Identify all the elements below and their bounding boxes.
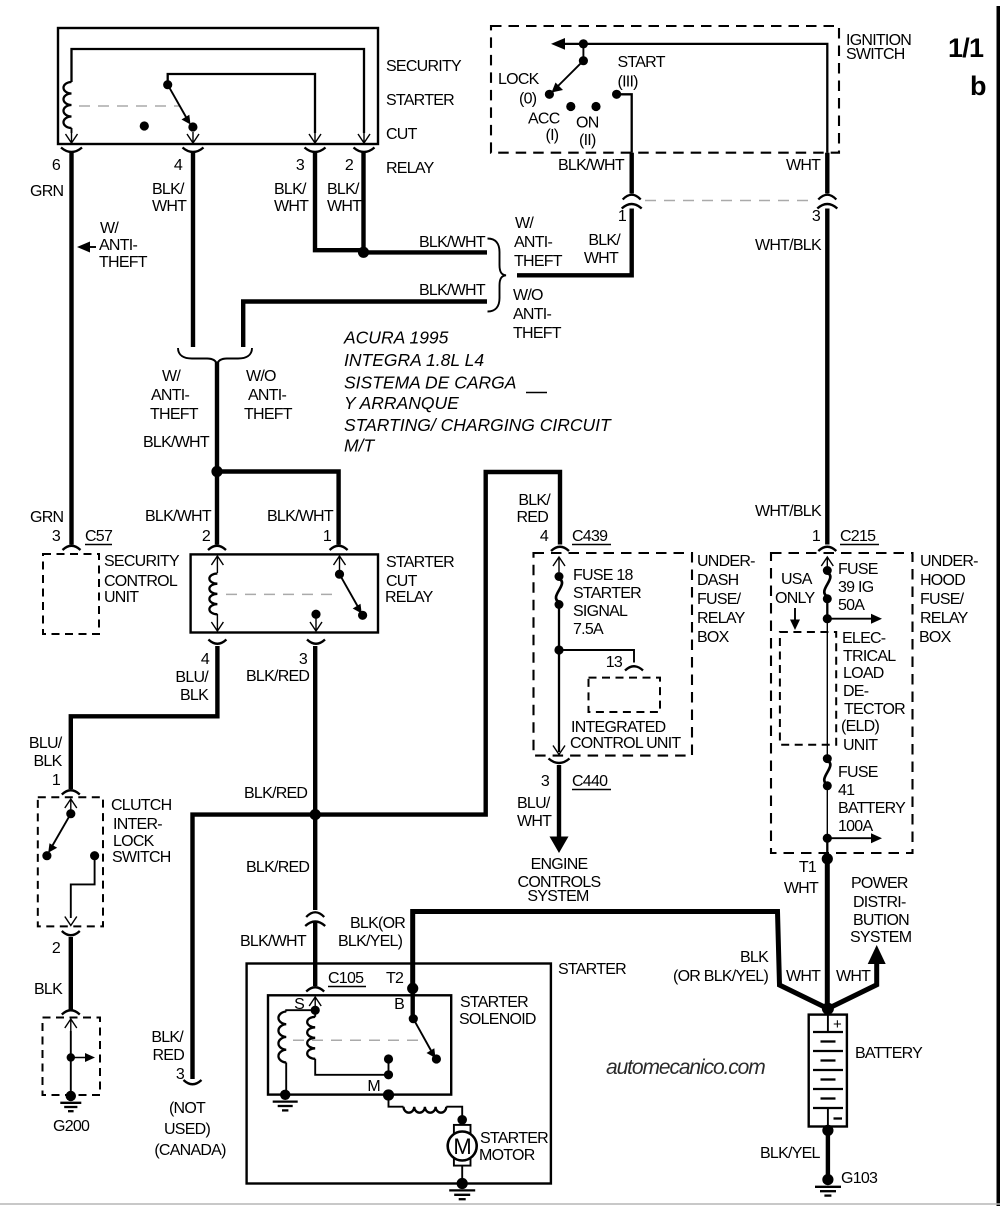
svg-text:C440: C440 (572, 773, 608, 790)
svg-text:1: 1 (52, 772, 61, 789)
svg-text:BLK/WHT: BLK/WHT (558, 157, 625, 174)
connector name C440 (572, 773, 611, 790)
ground G103 symbol (815, 1174, 841, 1196)
svg-text:DE-: DE- (843, 683, 869, 700)
wire BLK clutch to G200 (69, 937, 73, 1010)
svg-text:2: 2 (52, 940, 61, 957)
svg-text:BLK: BLK (34, 981, 63, 998)
solenoid coil 2 (307, 1010, 388, 1075)
svg-text:W/O: W/O (246, 368, 276, 385)
svg-text:LOCK: LOCK (113, 833, 155, 850)
svg-text:BLK/WHT: BLK/WHT (267, 508, 334, 525)
ignition switch rotor (552, 39, 589, 92)
svg-text:T2: T2 (386, 970, 404, 987)
relay U2 pin4 arrow down (211, 614, 223, 631)
svg-text:SECURITY: SECURITY (104, 553, 180, 570)
svg-text:(NOT: (NOT (169, 1100, 206, 1117)
svg-text:13: 13 (606, 654, 623, 671)
svg-text:BOX: BOX (697, 629, 730, 646)
arrow right fuse41 (827, 833, 882, 843)
svg-text:ONLY: ONLY (775, 590, 815, 607)
svg-text:1: 1 (812, 528, 821, 545)
page bottom rule (0, 1203, 1000, 1205)
solenoid coil1 ground (273, 1090, 298, 1111)
svg-text:ACC: ACC (528, 111, 560, 128)
connector bell ICU pin13 (625, 666, 643, 670)
svg-text:1: 1 (323, 528, 332, 545)
svg-text:RELAY: RELAY (385, 589, 434, 606)
svg-text:b: b (970, 71, 986, 101)
svg-text:BLU/: BLU/ (517, 795, 551, 812)
svg-text:THEFT: THEFT (514, 253, 563, 270)
starter assembly box (247, 964, 551, 1184)
svg-text:2: 2 (202, 528, 211, 545)
inline connector C105 upper (305, 912, 325, 926)
relay U2 coupling dashed line (226, 593, 336, 595)
wire BLK/WHT relay pin2 down (361, 152, 365, 250)
svg-text:LOCK: LOCK (498, 71, 540, 88)
relay U1 internal wire pin6-coil-pin2 (72, 49, 365, 133)
C440 arrow down (553, 746, 565, 755)
svg-text:Y ARRANQUE: Y ARRANQUE (344, 393, 459, 413)
wire BLK from T2 to battery (413, 912, 828, 1009)
connector dashed link (645, 200, 814, 202)
wire label BLK/RED not used (151, 1029, 184, 1064)
wire BLK/WHT merge down (215, 362, 219, 472)
connector bell pin 4 (183, 148, 204, 153)
wire WHT T1 to battery (825, 859, 830, 1009)
svg-text:ELEC-: ELEC- (842, 630, 886, 647)
svg-text:G200: G200 (53, 1118, 90, 1135)
svg-text:W/: W/ (162, 368, 181, 385)
svg-text:BLK: BLK (34, 753, 63, 770)
svg-text:RELAY: RELAY (920, 610, 969, 627)
relay U2 coil (209, 574, 217, 615)
junction dot battery negative (822, 1125, 833, 1136)
svg-text:HOOD: HOOD (920, 572, 965, 589)
connector bell C57 (63, 546, 81, 550)
label IGNITION SWITCH (846, 32, 911, 63)
svg-text:STARTING/ CHARGING CIRCUIT: STARTING/ CHARGING CIRCUIT (344, 415, 612, 435)
fuse F18 (555, 572, 564, 650)
svg-text:WHT: WHT (517, 813, 552, 830)
svg-text:50A: 50A (838, 597, 865, 614)
starter solenoid box (268, 995, 451, 1094)
svg-text:W/: W/ (100, 220, 119, 237)
label T1 WHT (784, 859, 819, 897)
svg-text:BLK/WHT: BLK/WHT (143, 434, 210, 451)
inline connector pair pin 1 (622, 195, 642, 209)
merge brace symbol (178, 348, 252, 365)
label STARTER CUT RELAY (385, 554, 454, 606)
svg-text:39 IG: 39 IG (838, 579, 874, 596)
node T1 (822, 853, 833, 864)
wire label BLK(OR BLK/YEL) (338, 915, 405, 950)
label ELECTRICAL LOAD DETECTOR (ELD) UNIT (841, 630, 905, 754)
relay U1 pin 6 arrow (66, 133, 78, 143)
clutch switch pin1 arrow (65, 799, 77, 810)
svg-text:DASH: DASH (697, 572, 739, 589)
svg-text:STARTER: STARTER (558, 961, 626, 978)
svg-text:TECTOR: TECTOR (844, 701, 905, 718)
svg-text:3: 3 (812, 208, 821, 225)
clutch switch right contact and wire (71, 851, 99, 918)
label ENGINE CONTROLS SYSTEM (518, 856, 601, 905)
svg-text:BLK/YEL: BLK/YEL (760, 1145, 821, 1162)
svg-text:BLK/WHT: BLK/WHT (240, 933, 307, 950)
connector name C439 (572, 528, 611, 545)
svg-text:W/O: W/O (513, 287, 543, 304)
ignition switch dashed box (491, 26, 839, 153)
svg-text:FUSE: FUSE (838, 764, 878, 781)
security control unit dashed box (43, 554, 99, 634)
wire BLK/WHT relay pin4 down to merge (191, 152, 195, 347)
svg-text:FUSE/: FUSE/ (697, 591, 742, 608)
svg-text:SYSTEM: SYSTEM (850, 929, 912, 946)
wire thin through ELD (826, 619, 828, 759)
svg-text:4: 4 (201, 651, 210, 668)
relay U2 contact and pin3 arrow (310, 610, 322, 631)
svg-text:BLK/RED: BLK/RED (244, 785, 307, 802)
wire label BLU/BLK (175, 669, 209, 704)
connector bell pin 3 (305, 148, 326, 153)
svg-text:WHT: WHT (327, 198, 362, 215)
relay U2 switch arm (335, 570, 367, 620)
connector bell C439 (551, 547, 569, 551)
svg-text:3: 3 (296, 157, 305, 174)
svg-text:ANTI-: ANTI- (248, 387, 286, 404)
svg-text:WHT: WHT (584, 250, 619, 267)
junction dot BLK/WHT split (211, 466, 222, 477)
starter motor M1 (448, 1115, 477, 1166)
svg-text:BATTERY: BATTERY (855, 1045, 923, 1062)
svg-text:ENGINE: ENGINE (531, 856, 588, 873)
svg-text:WHT: WHT (836, 968, 871, 985)
svg-text:BLK/WHT: BLK/WHT (419, 282, 486, 299)
connector bell G200 (62, 1010, 80, 1014)
ELD dashed box (780, 632, 836, 745)
label LOCK (0) (498, 71, 540, 108)
wire BLK/RED relay pin3 down (313, 646, 317, 910)
integrated control unit dashed box (589, 678, 661, 712)
svg-text:C215: C215 (840, 528, 876, 545)
svg-text:ANTI-: ANTI- (151, 387, 189, 404)
svg-text:BLK/RED: BLK/RED (246, 859, 309, 876)
svg-text:FUSE: FUSE (838, 561, 878, 578)
relay U2 pin2 arrow up (211, 556, 223, 573)
solenoid coil 1 (278, 1012, 286, 1092)
wire BLK/WHT into starter (313, 921, 317, 986)
wire BLK/RED not-used branch (193, 815, 316, 1079)
svg-text:WHT/BLK: WHT/BLK (755, 503, 822, 520)
svg-text:BLK/: BLK/ (327, 181, 360, 198)
svg-text:+: + (833, 1016, 842, 1033)
page number 1/1 b (948, 33, 986, 101)
svg-text:3: 3 (541, 773, 550, 790)
connector bell relay2 pin2 (208, 546, 226, 550)
label W/ ANTI-THEFT brace (514, 215, 563, 270)
connector bell relay U2 pin4 (208, 640, 226, 644)
wire BLK/RED to fuse 18 (315, 472, 560, 815)
wire label BLK/WHT connector (584, 232, 621, 267)
svg-text:INTEGRATED: INTEGRATED (571, 719, 666, 736)
svg-text:ON: ON (576, 115, 599, 132)
junction dot battery positive (822, 1003, 834, 1015)
svg-text:THEFT: THEFT (244, 406, 293, 423)
svg-text:BOX: BOX (919, 629, 952, 646)
under-hood fuse box dashed (771, 553, 913, 853)
solenoid M node dot (383, 1089, 394, 1100)
ignition START wire to box edge (617, 94, 632, 152)
wire BLK/WHT ignition to connector (630, 153, 634, 194)
wire BLK/YEL battery to G103 (826, 1130, 830, 1176)
svg-text:M: M (367, 1078, 380, 1095)
clutch switch arm (42, 809, 75, 860)
label FUSE 18 STARTER SIGNAL 7.5A (573, 567, 641, 638)
solenoid S node dot (311, 1006, 320, 1015)
svg-text:RED: RED (152, 1047, 184, 1064)
junction dot fuse39 output (823, 614, 832, 623)
relay U1 coil (64, 82, 72, 133)
svg-text:(OR BLK/YEL): (OR BLK/YEL) (673, 968, 768, 985)
svg-text:(CANADA): (CANADA) (154, 1142, 226, 1159)
relay U1 internal wire switch-pin3 (168, 74, 315, 133)
svg-text:CONTROL: CONTROL (104, 573, 178, 590)
svg-text:C105: C105 (328, 970, 364, 987)
svg-text:B: B (394, 996, 404, 1013)
relay U1 coupling dashed line (79, 105, 180, 107)
svg-text:BLK: BLK (180, 687, 209, 704)
svg-text:C439: C439 (572, 528, 608, 545)
junction dot T2 (407, 983, 418, 994)
svg-text:START: START (618, 54, 666, 71)
svg-text:DISTRI-: DISTRI- (853, 894, 906, 911)
svg-text:STARTER: STARTER (573, 585, 641, 602)
wire BLU/BLK relay to clutch switch (71, 646, 218, 789)
wire label BLU/BLK lower (29, 735, 63, 770)
wire label BLK/WHT pin4 (152, 181, 187, 215)
svg-text:BLK(OR: BLK(OR (350, 915, 405, 932)
relay U2 pin1 arrow up (334, 556, 346, 570)
solenoid coupling dashed line (293, 1039, 420, 1041)
svg-text:TRICAL: TRICAL (843, 648, 896, 665)
svg-text:BUTION: BUTION (853, 912, 909, 929)
relay U1 switch arm (163, 80, 197, 132)
svg-text:1/1: 1/1 (948, 33, 984, 63)
label STARTER SOLENOID (459, 994, 536, 1028)
svg-text:SISTEMA DE CARGA: SISTEMA DE CARGA (344, 373, 516, 393)
wire motor to ground (461, 1166, 463, 1180)
svg-text:BLK/RED: BLK/RED (246, 668, 309, 685)
svg-text:M/T: M/T (344, 436, 375, 456)
connector bell clutch pin1 (62, 790, 80, 794)
G200 internal dot and right arrow (67, 1053, 95, 1062)
svg-text:SWITCH: SWITCH (112, 849, 171, 866)
svg-text:SECURITY: SECURITY (386, 58, 462, 75)
svg-text:THEFT: THEFT (150, 406, 199, 423)
svg-text:WHT: WHT (786, 968, 821, 985)
label (NOT USED) (CANADA) (154, 1100, 226, 1159)
svg-text:CLUTCH: CLUTCH (111, 797, 172, 814)
svg-text:G103: G103 (841, 1170, 878, 1187)
svg-text:M: M (453, 1134, 471, 1159)
label W/O ANTI-THEFT brace (513, 287, 562, 342)
wire branch to ICU pin 13 (559, 650, 634, 663)
relay U1 pin 2 arrow (358, 133, 370, 143)
svg-text:BLK/WHT: BLK/WHT (419, 234, 486, 251)
clutch interlock switch dashed box (38, 797, 103, 926)
svg-text:GRN: GRN (30, 509, 64, 526)
relay U1 pin 4 arrow (187, 132, 199, 143)
svg-text:BLK/YEL): BLK/YEL) (338, 933, 403, 950)
wire BLK/WHT to brace W/ANTI-THEFT (364, 250, 488, 254)
under-dash fuse box dashed (534, 553, 693, 756)
brace right W/-W/O merge (488, 239, 507, 312)
svg-text:ANTI-: ANTI- (513, 306, 551, 323)
C439 pin arrow up (553, 557, 565, 572)
svg-text:BLK/: BLK/ (518, 492, 551, 509)
svg-text:THEFT: THEFT (99, 254, 148, 271)
wire M to starter winding (389, 1095, 404, 1107)
connector bell clutch pin2 (62, 931, 80, 935)
solenoid contact dots M side (384, 1054, 393, 1079)
connector bell pin 2 (354, 148, 375, 153)
svg-text:4: 4 (540, 528, 549, 545)
wire fuse18 to C440 (558, 650, 560, 752)
svg-text:BLK/WHT: BLK/WHT (145, 508, 212, 525)
svg-text:T1: T1 (799, 859, 817, 876)
label W/ ANTI-THEFT left (99, 220, 148, 271)
wire fuse41 to box edge (826, 838, 828, 853)
svg-text:(II): (II) (579, 132, 596, 149)
svg-text:UNIT: UNIT (104, 589, 139, 606)
svg-text:RED: RED (516, 509, 548, 526)
svg-text:SOLENOID: SOLENOID (459, 1011, 536, 1028)
inline connector pair pin 3 (817, 195, 837, 209)
ignition contact LOCK (545, 90, 554, 99)
svg-text:41: 41 (838, 782, 855, 799)
junction dot BLK/RED (310, 809, 321, 820)
relay U2 box STARTER CUT RELAY (191, 554, 378, 632)
label USA ONLY (775, 571, 815, 607)
svg-text:(ELD): (ELD) (841, 718, 879, 735)
svg-text:USED): USED) (164, 1121, 210, 1138)
wire brace output to ignition pin1 (517, 209, 632, 276)
connector bell relay2 pin1 (330, 546, 348, 550)
arrow W/ ANTI-THEFT (77, 242, 96, 253)
wire label BLK/WHT pin3 (274, 181, 309, 215)
solenoid pull-in coil wire (286, 1010, 315, 1011)
label FUSE 41 BATTERY 100A (838, 764, 906, 835)
svg-text:UNDER-: UNDER- (697, 553, 755, 570)
label CLUTCH INTERLOCK SWITCH (111, 797, 172, 866)
svg-text:SIGNAL: SIGNAL (573, 603, 628, 620)
wire BLK/WHT to relay pin 1 (217, 472, 339, 545)
wire label BLU/WHT (517, 795, 552, 830)
G200 arrow up (65, 1019, 77, 1031)
svg-text:1: 1 (618, 208, 627, 225)
label W/O ANTI-THEFT merge (244, 368, 293, 423)
svg-text:BLK: BLK (740, 949, 769, 966)
connector bell relay U2 pin3 (307, 640, 325, 644)
ignition contact ON (591, 102, 600, 111)
junction dot fuse41 output (823, 834, 832, 843)
wire WHT/BLK to C215 (825, 209, 829, 545)
connector bell C440 (549, 759, 570, 764)
fuse F39 (823, 566, 832, 619)
svg-text:BLK/: BLK/ (152, 181, 185, 198)
wire label BLK (OR BLK/YEL) (673, 949, 769, 985)
ground G200 symbol (60, 1091, 81, 1111)
svg-text:RELAY: RELAY (697, 610, 746, 627)
relay U1 contact dot (140, 121, 149, 130)
wire WHT to power distribution arrow (828, 945, 886, 1009)
svg-text:BLU/: BLU/ (175, 669, 209, 686)
solenoid switch arm B (409, 1014, 441, 1063)
svg-text:3: 3 (299, 651, 308, 668)
svg-text:(I): (I) (546, 127, 559, 144)
svg-text:CUT: CUT (386, 573, 418, 590)
junction dot fuse18 output (554, 645, 563, 654)
svg-text:INTEGRA 1.8L L4: INTEGRA 1.8L L4 (344, 350, 484, 370)
label START (III) (618, 54, 666, 91)
wire GRN relay pin6 to C57 (69, 152, 73, 545)
ignition contact START (612, 90, 621, 99)
wire T2 into solenoid B (411, 988, 415, 1016)
G200 internal wire (70, 1031, 72, 1092)
wire WHT ignition pin3 to connector (825, 153, 829, 194)
ground G200 dashed box (43, 1018, 101, 1096)
svg-text:UNDER-: UNDER- (920, 553, 978, 570)
svg-text:3: 3 (52, 528, 61, 545)
connector name C57 (85, 528, 113, 545)
svg-text:GRN: GRN (30, 183, 64, 200)
svg-text:LOAD: LOAD (843, 665, 884, 682)
junction dot relay pins 2-3 (358, 247, 369, 258)
wire BLK/WHT relay pin3 down (315, 152, 364, 250)
svg-text:ANTI-: ANTI- (514, 234, 552, 251)
svg-text:SYSTEM: SYSTEM (527, 888, 589, 905)
clutch switch pin2 arrow down (65, 917, 77, 926)
wire label BLK/RED 4 (516, 492, 551, 526)
svg-text:INTER-: INTER- (113, 816, 162, 833)
connector name C105 (328, 970, 366, 987)
svg-text:C57: C57 (85, 528, 113, 545)
relay U1 box SECURITY STARTER CUT RELAY (58, 28, 378, 144)
battery BAT1 (809, 1015, 847, 1127)
svg-text:USA: USA (781, 571, 813, 588)
label SECURITY CONTROL UNIT (104, 553, 180, 606)
solenoid S pin arrow up (309, 997, 321, 1008)
wire label BLK/WHT pin2 (327, 181, 362, 215)
svg-text:W/: W/ (515, 215, 534, 232)
svg-text:WHT: WHT (786, 157, 821, 174)
label POWER DISTRIBUTION SYSTEM (850, 875, 912, 946)
fuse F41 (823, 754, 832, 838)
svg-text:2: 2 (345, 157, 354, 174)
svg-text:STARTER: STARTER (386, 92, 454, 109)
arrow right fuse39 (827, 614, 882, 624)
label ON (II) (576, 115, 599, 150)
svg-text:STARTER: STARTER (460, 994, 528, 1011)
starter motor winding (404, 1107, 463, 1117)
connector bell C105 solenoid (306, 987, 324, 991)
svg-text:THEFT: THEFT (513, 325, 562, 342)
connector bell C215 (818, 547, 836, 551)
label SECURITY STARTER CUT RELAY (386, 58, 462, 177)
svg-text:automecanico.com: automecanico.com (606, 1056, 765, 1079)
connector bell not used (184, 1080, 202, 1084)
